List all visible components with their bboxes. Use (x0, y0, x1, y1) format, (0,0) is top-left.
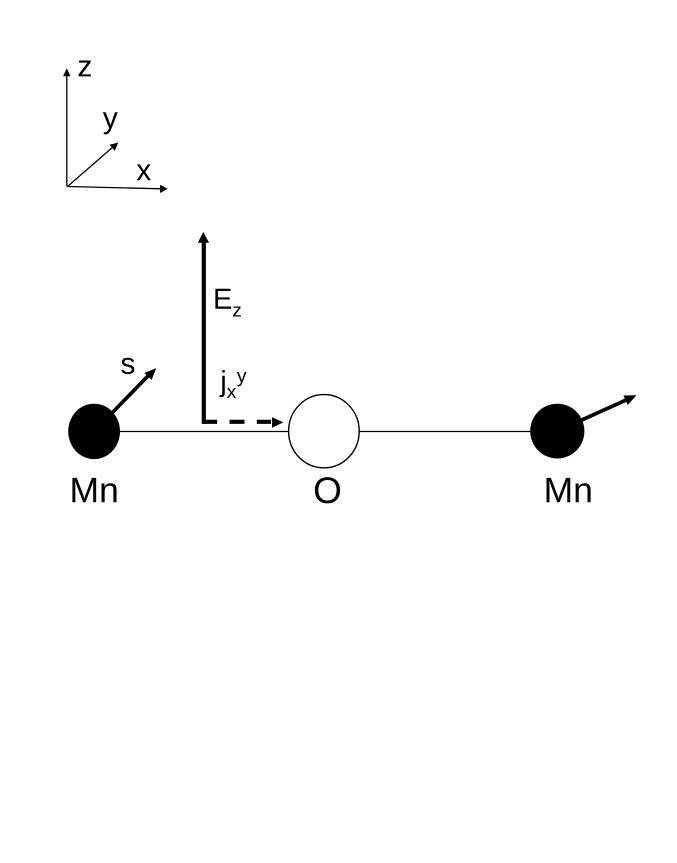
electric field arrow Ez (198, 232, 209, 424)
y-axis (68, 143, 119, 187)
label Ez (215, 289, 240, 317)
x-axis (68, 185, 168, 193)
Mn-O-Mn bond wire (94, 431, 557, 433)
spin current dashed arrow jxy (202, 417, 283, 428)
label Mn right (547, 478, 571, 502)
z-axis label (79, 61, 91, 77)
x-axis label (137, 164, 151, 180)
y-axis label (103, 112, 118, 134)
spin arrow s on left Mn (94, 368, 156, 431)
label Mn left (72, 478, 96, 502)
label s (121, 358, 134, 374)
atom Mn right (530, 404, 584, 459)
atom O (289, 395, 360, 468)
atom Mn left (68, 404, 120, 459)
spin arrow on right Mn (557, 395, 636, 431)
z-axis (63, 68, 70, 186)
label jxy (220, 370, 247, 398)
label O (315, 477, 340, 503)
